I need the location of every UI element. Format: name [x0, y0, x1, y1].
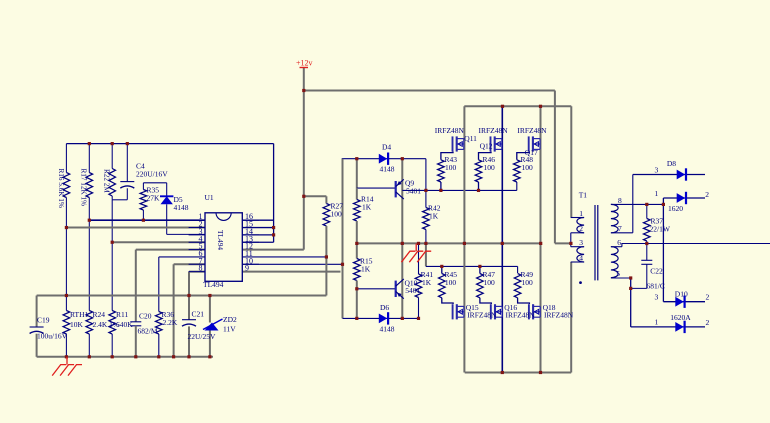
- svg-text:R22 2M: R22 2M: [103, 169, 111, 193]
- svg-text:Q11: Q11: [464, 134, 477, 143]
- svg-text:3: 3: [655, 293, 659, 302]
- svg-text:IRFZ48N: IRFZ48N: [435, 126, 465, 135]
- svg-text:Q17: Q17: [525, 148, 538, 157]
- svg-text:2: 2: [579, 224, 583, 233]
- svg-text:5: 5: [616, 269, 620, 278]
- svg-text:22/1W: 22/1W: [650, 225, 671, 234]
- svg-text:220U/16V: 220U/16V: [136, 170, 168, 179]
- svg-text:4148: 4148: [174, 203, 189, 212]
- svg-text:6: 6: [617, 238, 621, 247]
- svg-text:D8: D8: [667, 159, 676, 168]
- svg-text:100: 100: [445, 163, 457, 172]
- svg-text:681/C: 681/C: [647, 282, 665, 291]
- svg-text:R24: R24: [93, 310, 106, 319]
- svg-text:1K: 1K: [362, 203, 372, 212]
- svg-text:T1: T1: [579, 191, 588, 200]
- svg-text:100: 100: [445, 278, 457, 287]
- svg-text:100: 100: [331, 210, 343, 219]
- svg-text:10K: 10K: [70, 320, 84, 329]
- svg-text:2: 2: [706, 318, 710, 327]
- svg-text:100: 100: [484, 163, 496, 172]
- svg-text:682/M: 682/M: [138, 327, 158, 336]
- svg-text:D4: D4: [382, 143, 391, 152]
- svg-text:R16 5.6K 1%: R16 5.6K 1%: [57, 169, 65, 208]
- svg-text:27K: 27K: [147, 194, 161, 203]
- svg-text:8: 8: [199, 264, 203, 273]
- svg-text:100u/16V: 100u/16V: [37, 331, 68, 340]
- svg-text:5401: 5401: [405, 286, 420, 295]
- svg-text:C21: C21: [192, 310, 205, 319]
- svg-text:640K: 640K: [116, 320, 133, 329]
- svg-text:1: 1: [579, 209, 583, 218]
- svg-text:Q12: Q12: [480, 142, 493, 151]
- svg-text:22U/25V: 22U/25V: [188, 332, 217, 341]
- svg-text:4148: 4148: [380, 325, 395, 334]
- svg-text:100: 100: [484, 278, 496, 287]
- svg-text:2: 2: [706, 293, 710, 302]
- svg-text:1: 1: [655, 189, 659, 198]
- svg-text:3: 3: [655, 166, 659, 175]
- svg-text:IRFZ48N: IRFZ48N: [479, 126, 509, 135]
- svg-text:D6: D6: [380, 303, 389, 312]
- svg-text:11V: 11V: [223, 325, 236, 334]
- svg-text:IRFZ48N: IRFZ48N: [467, 310, 497, 319]
- svg-text:TL494: TL494: [203, 280, 224, 289]
- svg-text:1: 1: [655, 318, 659, 327]
- svg-text:8: 8: [618, 196, 622, 205]
- svg-text:2: 2: [705, 190, 709, 199]
- svg-text:+12v: +12v: [296, 59, 313, 68]
- svg-text:C22: C22: [650, 267, 663, 276]
- svg-text:1K: 1K: [429, 212, 439, 221]
- svg-text:RTH1: RTH1: [70, 310, 89, 319]
- svg-text:IRFZ48N: IRFZ48N: [517, 126, 547, 135]
- svg-text:C20: C20: [139, 312, 152, 321]
- svg-text:IRFZ48N: IRFZ48N: [544, 310, 574, 319]
- svg-text:4: 4: [579, 253, 583, 262]
- svg-text:R11: R11: [116, 310, 128, 319]
- svg-text:9: 9: [245, 264, 249, 273]
- svg-text:1620A: 1620A: [670, 313, 691, 322]
- svg-text:5401: 5401: [406, 187, 421, 196]
- svg-text:1K: 1K: [361, 265, 371, 274]
- svg-text:1K: 1K: [422, 278, 432, 287]
- svg-text:7: 7: [618, 224, 622, 233]
- svg-text:100: 100: [522, 163, 534, 172]
- svg-text:1620: 1620: [668, 204, 683, 213]
- svg-text:IRFZ48N: IRFZ48N: [506, 310, 536, 319]
- svg-text:100: 100: [522, 278, 534, 287]
- svg-text:U1: U1: [205, 193, 214, 202]
- svg-text:ZD2: ZD2: [223, 315, 237, 324]
- svg-text:D10: D10: [675, 290, 688, 299]
- svg-text:3: 3: [579, 238, 583, 247]
- svg-text:TL494: TL494: [216, 230, 225, 250]
- svg-text:R17 12K 1%: R17 12K 1%: [80, 169, 88, 207]
- svg-text:C19: C19: [37, 315, 50, 324]
- svg-text:2.2K: 2.2K: [163, 318, 178, 327]
- svg-text:4148: 4148: [380, 165, 395, 174]
